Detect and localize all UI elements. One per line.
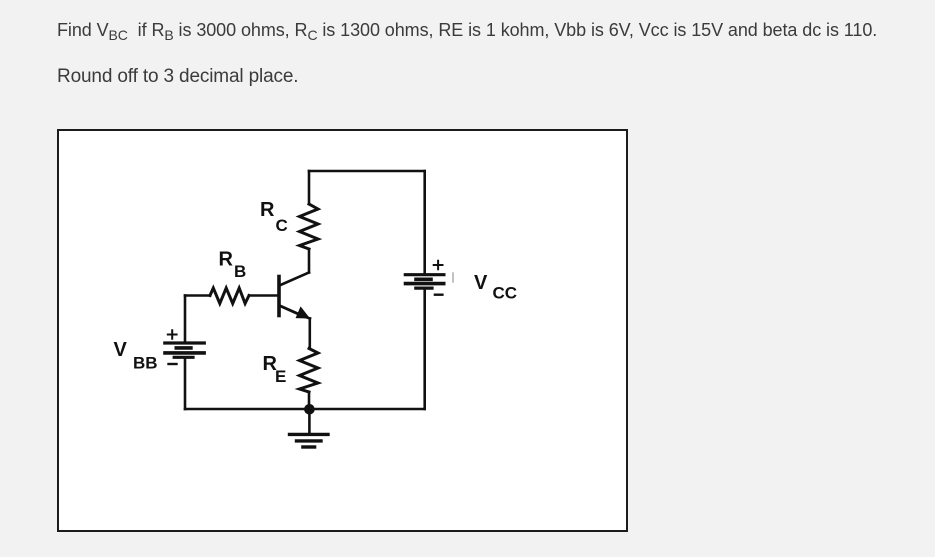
wire: emitter to RE <box>308 319 311 349</box>
transistor Q1 <box>279 273 310 319</box>
wire: VBB to RB <box>185 294 210 297</box>
svg-text:V: V <box>114 339 128 361</box>
resistor RE <box>300 349 319 393</box>
wire: left rail lower <box>184 357 187 409</box>
wire: RC bottom to collector <box>308 249 311 273</box>
ground <box>288 409 330 447</box>
node E junction <box>304 404 315 415</box>
wire: right rail lower <box>423 288 426 409</box>
VBB + terminal <box>168 330 177 339</box>
label VCC <box>474 272 517 303</box>
svg-text:V: V <box>474 272 488 294</box>
wire: top rail to RC top lead <box>308 171 311 204</box>
VCC + terminal <box>434 261 443 270</box>
wire: RB to base <box>249 294 278 297</box>
VBB - terminal <box>169 363 177 365</box>
battery VBB <box>163 330 206 364</box>
wire: bottom rail <box>185 408 425 411</box>
svg-text:B: B <box>234 262 246 281</box>
svg-text:R: R <box>219 249 234 271</box>
VCC - terminal <box>435 294 443 296</box>
svg-text:BB: BB <box>133 354 158 373</box>
wire: top rail <box>309 170 425 173</box>
svg-text:C: C <box>276 216 288 235</box>
wire: RE to ground node <box>308 392 311 409</box>
wire: left rail upper <box>184 296 187 344</box>
svg-text:R: R <box>260 199 275 221</box>
label RB <box>219 249 247 282</box>
label VBB <box>114 339 158 373</box>
battery VCC <box>404 261 453 295</box>
svg-text:CC: CC <box>493 284 518 303</box>
resistor RB <box>210 288 249 304</box>
label RE <box>263 353 287 386</box>
wire: right rail upper <box>423 171 426 275</box>
svg-text:E: E <box>275 367 286 386</box>
resistor RC <box>300 204 319 249</box>
label RC <box>260 199 288 235</box>
